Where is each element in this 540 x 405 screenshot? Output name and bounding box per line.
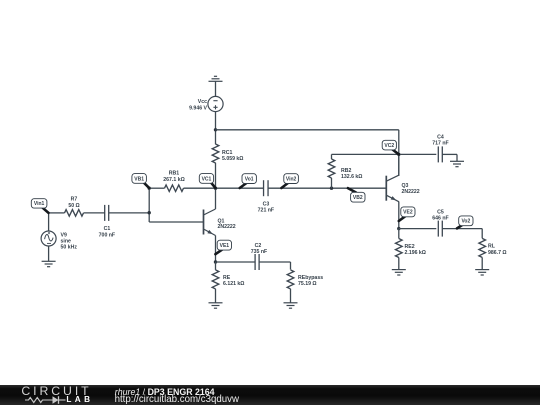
svg-text:75.19 Ω: 75.19 Ω — [298, 281, 317, 287]
svg-text:VB1: VB1 — [134, 176, 144, 182]
svg-text:C1: C1 — [104, 226, 111, 232]
svg-text:2N2222: 2N2222 — [402, 189, 420, 195]
svg-text:50 Ω: 50 Ω — [68, 203, 79, 209]
svg-text:VE2: VE2 — [403, 210, 413, 216]
svg-text:2.196 kΩ: 2.196 kΩ — [405, 250, 426, 256]
svg-text:Vin1: Vin1 — [34, 201, 45, 207]
svg-text:646 nF: 646 nF — [432, 215, 448, 221]
svg-text:2N2222: 2N2222 — [218, 224, 236, 230]
svg-text:700 nF: 700 nF — [99, 232, 115, 238]
svg-text:RC1: RC1 — [222, 150, 232, 156]
svg-text:50 kHz: 50 kHz — [61, 245, 78, 251]
svg-text:C3: C3 — [263, 201, 270, 207]
svg-text:9.946 V: 9.946 V — [189, 106, 207, 112]
svg-text:717 nF: 717 nF — [432, 140, 448, 146]
svg-text:VC1: VC1 — [202, 176, 212, 182]
svg-text:735 nF: 735 nF — [251, 249, 267, 255]
svg-text:RL: RL — [488, 243, 496, 249]
svg-text:267.1 kΩ: 267.1 kΩ — [163, 177, 184, 183]
svg-text:R7: R7 — [71, 197, 78, 203]
svg-text:RB1: RB1 — [169, 171, 179, 177]
svg-text:Vcc: Vcc — [198, 99, 207, 105]
svg-text:Vo2: Vo2 — [461, 219, 470, 225]
svg-text:RE: RE — [223, 275, 231, 281]
svg-text:REbypass: REbypass — [298, 275, 323, 281]
svg-text:Vo1: Vo1 — [245, 176, 254, 182]
svg-text:986.7 Ω: 986.7 Ω — [488, 250, 507, 256]
svg-text:RB2: RB2 — [341, 168, 351, 174]
svg-text:VC2: VC2 — [384, 143, 394, 149]
svg-text:5.059 kΩ: 5.059 kΩ — [222, 156, 243, 162]
svg-text:VB2: VB2 — [353, 195, 363, 201]
svg-text:6.121 kΩ: 6.121 kΩ — [223, 281, 244, 287]
svg-text:Vin2: Vin2 — [286, 176, 297, 182]
svg-text:721 nF: 721 nF — [258, 208, 274, 214]
svg-text:VE1: VE1 — [220, 243, 230, 249]
svg-text:132.6 kΩ: 132.6 kΩ — [341, 174, 362, 180]
